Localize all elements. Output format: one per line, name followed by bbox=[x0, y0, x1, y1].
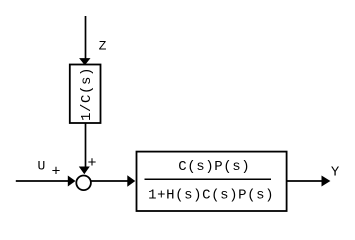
arrowhead into summing junction (from top) bbox=[79, 167, 90, 175]
wire: Z input vertical line from top bbox=[85, 16, 87, 59]
svg-text:Y: Y bbox=[331, 165, 340, 181]
summing junction bbox=[76, 176, 91, 191]
wire: output Y bbox=[287, 180, 322, 182]
arrowhead into block 1/C(s) bbox=[79, 58, 90, 65]
svg-text:+: + bbox=[52, 164, 61, 181]
svg-text:1+H(s)C(s)P(s): 1+H(s)C(s)P(s) bbox=[148, 187, 274, 203]
svg-text:Z: Z bbox=[99, 38, 107, 53]
block U1: closed-loop transfer function bbox=[137, 152, 287, 211]
wire: U input horizontal bbox=[16, 180, 69, 182]
wire: summing junction to main block bbox=[91, 180, 128, 182]
block U2: 1/C(s) bbox=[70, 65, 101, 124]
svg-text:1/C(s): 1/C(s) bbox=[79, 67, 95, 121]
arrowhead into summing junction (from left) bbox=[68, 176, 76, 187]
arrowhead output bbox=[322, 176, 331, 187]
svg-text:U: U bbox=[38, 159, 46, 174]
svg-text:C(s)P(s): C(s)P(s) bbox=[178, 159, 250, 175]
fraction bar bbox=[145, 178, 272, 180]
wire: block1 bottom to summing junction bbox=[85, 123, 87, 167]
svg-text:+: + bbox=[88, 155, 97, 172]
arrowhead into main block bbox=[127, 175, 135, 186]
